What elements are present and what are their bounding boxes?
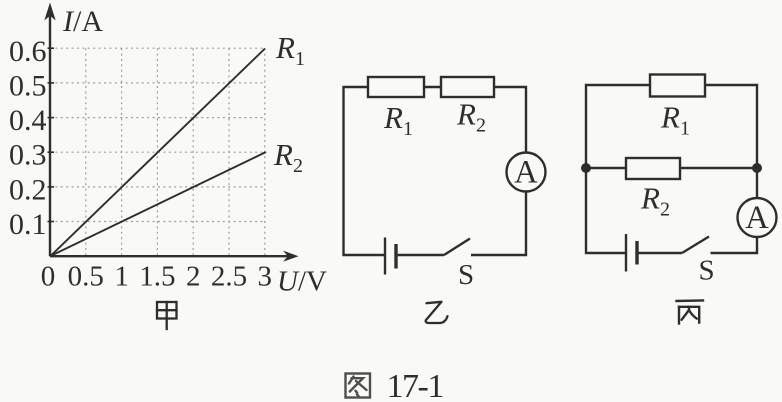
svg-text:2.5: 2.5: [211, 261, 247, 293]
svg-text:0.6: 0.6: [9, 35, 47, 68]
y-axis arrowhead: [44, 3, 55, 21]
svg-text:3: 3: [258, 261, 273, 293]
y tick labels: [9, 35, 47, 241]
node left junction dot: [581, 163, 591, 173]
svg-text:R1: R1: [383, 100, 413, 140]
wire junction to ammeter: [756, 168, 758, 198]
svg-text:0.3: 0.3: [9, 139, 47, 172]
svg-text:A: A: [745, 200, 769, 236]
svg-text:1.5: 1.5: [139, 261, 175, 293]
x-axis arrowhead: [283, 251, 299, 262]
switch S lever: [682, 237, 709, 254]
svg-text:1: 1: [114, 261, 129, 293]
y-axis ticks: [48, 48, 55, 221]
ammeter A: [507, 153, 546, 192]
svg-text:0.4: 0.4: [9, 104, 47, 137]
x tick labels: [41, 261, 272, 293]
line R2 (shallow): [51, 152, 267, 256]
line R1 (steep): [51, 49, 266, 257]
wire between resistors: [424, 86, 441, 88]
svg-text:0.5: 0.5: [68, 261, 104, 293]
wire battery to switch: [396, 254, 444, 256]
resistor R2 box: [626, 158, 680, 179]
caption 丙 (hand-drawn CJK): [677, 301, 704, 324]
svg-text:0.2: 0.2: [9, 174, 47, 207]
parallel branch left wire: [586, 167, 626, 169]
svg-text:S: S: [699, 255, 715, 287]
y-axis (I axis): [49, 10, 51, 256]
caption 乙 (hand-drawn CJK): [426, 302, 448, 323]
svg-text:2: 2: [186, 261, 201, 293]
caption 甲 (hand-drawn CJK): [157, 302, 177, 329]
svg-text:U/V: U/V: [277, 266, 327, 298]
svg-text:S: S: [458, 259, 474, 291]
wire top-left: [586, 85, 650, 253]
battery cell: [385, 238, 396, 275]
resistor R1 box: [650, 75, 705, 97]
wire top-right: [705, 85, 757, 168]
svg-text:R2: R2: [456, 97, 486, 137]
svg-text:R1: R1: [660, 100, 690, 140]
grid horizontal dotted lines: [50, 48, 265, 221]
svg-text:0.5: 0.5: [9, 70, 47, 103]
svg-text:R1: R1: [275, 30, 305, 70]
switch S lever: [444, 239, 470, 256]
svg-text:R2: R2: [640, 181, 670, 221]
svg-text:0: 0: [41, 261, 56, 293]
ammeter A: [738, 198, 777, 237]
caption 图 (hand-drawn CJK): [346, 374, 371, 398]
svg-text:0.1: 0.1: [9, 208, 47, 241]
wire ammeter to bottom-right corner: [711, 237, 758, 253]
wire battery to switch: [637, 252, 682, 254]
battery cell: [626, 234, 637, 272]
wire top-left: [344, 87, 386, 255]
wire ammeter to bottom-right: [471, 192, 526, 256]
svg-text:A: A: [514, 155, 538, 191]
x-axis (U axis): [50, 255, 289, 257]
resistor R1 box: [368, 77, 424, 97]
grid vertical dotted lines: [86, 48, 265, 256]
svg-text:17-1: 17-1: [387, 368, 443, 402]
node right junction dot: [752, 163, 762, 173]
parallel branch right wire: [680, 167, 757, 169]
resistor R2 box: [441, 77, 494, 97]
wire top-right down to ammeter: [494, 87, 526, 153]
svg-text:R2: R2: [273, 137, 303, 177]
svg-text:I/A: I/A: [62, 5, 103, 38]
